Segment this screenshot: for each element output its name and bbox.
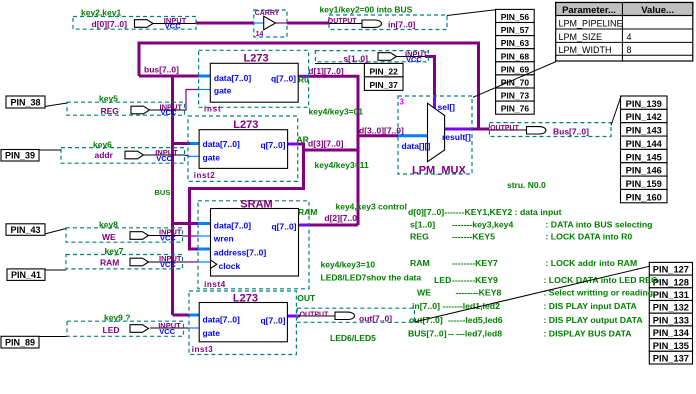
svg-text:L273: L273 bbox=[233, 119, 258, 131]
svg-text:d[0][7..0]-------KEY1,KEY2 : d: d[0][7..0]-------KEY1,KEY2 : data input bbox=[408, 207, 562, 217]
svg-text:------led5,led6: ------led5,led6 bbox=[448, 315, 503, 325]
svg-text:PIN_145: PIN_145 bbox=[626, 152, 662, 162]
svg-text:CARRY: CARRY bbox=[255, 10, 280, 17]
svg-text:key1/key2=00 into BUS: key1/key2=00 into BUS bbox=[320, 5, 413, 15]
svg-text:inst: inst bbox=[204, 105, 221, 114]
svg-text:REG: REG bbox=[101, 106, 120, 116]
svg-text:PIN_56: PIN_56 bbox=[501, 12, 530, 22]
svg-text:: DATA into BUS selecting: : DATA into BUS selecting bbox=[546, 220, 653, 230]
svg-text:: LOCK addr into RAM: : LOCK addr into RAM bbox=[546, 258, 638, 268]
svg-text:VCC: VCC bbox=[160, 260, 176, 269]
svg-text:R0: R0 bbox=[298, 75, 309, 85]
svg-text:PIN_131: PIN_131 bbox=[653, 290, 689, 300]
svg-text:d[2][7..0]: d[2][7..0] bbox=[324, 213, 360, 223]
svg-text:data[][]: data[][] bbox=[402, 141, 431, 151]
svg-text:LPM_WIDTH: LPM_WIDTH bbox=[559, 45, 612, 55]
svg-text:WE: WE bbox=[417, 288, 431, 298]
svg-text:key5: key5 bbox=[99, 94, 118, 104]
svg-text:d[0][7..0]: d[0][7..0] bbox=[92, 19, 128, 29]
svg-text:REG: REG bbox=[410, 232, 429, 242]
svg-text:AR: AR bbox=[297, 135, 309, 145]
svg-text:s[1..0]: s[1..0] bbox=[410, 220, 435, 230]
svg-text:: LOCK DATA into LED REG: : LOCK DATA into LED REG bbox=[544, 275, 658, 285]
svg-text:d[3][7..0]: d[3][7..0] bbox=[308, 138, 344, 148]
svg-text:BUS[7..0]: BUS[7..0] bbox=[408, 329, 447, 339]
svg-text:VCC: VCC bbox=[161, 108, 177, 117]
svg-text:-------key3,key4: -------key3,key4 bbox=[452, 220, 513, 230]
svg-text:Bus[7..0]: Bus[7..0] bbox=[553, 126, 589, 136]
svg-text:inst3: inst3 bbox=[192, 345, 214, 354]
svg-text:sel[]: sel[] bbox=[438, 102, 456, 112]
svg-text:key8: key8 bbox=[99, 219, 118, 229]
svg-text:PIN_160: PIN_160 bbox=[626, 192, 662, 202]
svg-text:out[7..0]: out[7..0] bbox=[359, 314, 392, 324]
svg-text:PIN_76: PIN_76 bbox=[501, 104, 530, 114]
svg-text:PIN_143: PIN_143 bbox=[626, 126, 662, 136]
svg-text:VCC: VCC bbox=[156, 154, 172, 163]
svg-text:VCC: VCC bbox=[159, 327, 175, 336]
svg-text:key7: key7 bbox=[105, 246, 124, 256]
svg-text:RAM: RAM bbox=[298, 207, 317, 217]
svg-text:PIN_132: PIN_132 bbox=[653, 303, 689, 313]
svg-text:PIN_22: PIN_22 bbox=[370, 66, 399, 76]
svg-text:Value...: Value... bbox=[641, 5, 674, 16]
svg-text:PIN_68: PIN_68 bbox=[501, 51, 530, 61]
svg-text:L273: L273 bbox=[233, 292, 258, 304]
svg-text:PIN_142: PIN_142 bbox=[626, 112, 662, 122]
svg-text:data[7..0]: data[7..0] bbox=[214, 73, 251, 83]
svg-text:PIN_39: PIN_39 bbox=[5, 151, 35, 161]
svg-text:LED8/LED7shov the data: LED8/LED7shov the data bbox=[321, 273, 422, 283]
svg-text:PIN_135: PIN_135 bbox=[653, 341, 689, 351]
svg-text:result[]: result[] bbox=[442, 132, 471, 142]
svg-text:PIN_146: PIN_146 bbox=[626, 166, 662, 176]
svg-text:data[7..0]: data[7..0] bbox=[203, 139, 240, 149]
svg-text:OUTPUT: OUTPUT bbox=[328, 18, 358, 25]
svg-text:LED: LED bbox=[434, 275, 451, 285]
svg-text:3: 3 bbox=[400, 98, 405, 107]
svg-text:key4/key3=01: key4/key3=01 bbox=[309, 107, 364, 117]
svg-text:4: 4 bbox=[627, 32, 632, 42]
svg-text:gate: gate bbox=[203, 153, 221, 163]
svg-text:OUTPUT: OUTPUT bbox=[490, 125, 519, 132]
svg-text:in[7..0]: in[7..0] bbox=[412, 301, 440, 311]
svg-text:: DIS PLAY output DATA: : DIS PLAY output DATA bbox=[544, 315, 644, 325]
svg-text:key4/key3=11: key4/key3=11 bbox=[315, 160, 369, 170]
svg-text:PIN_37: PIN_37 bbox=[370, 80, 399, 90]
svg-text:OUT: OUT bbox=[297, 293, 316, 303]
svg-text:PIN_127: PIN_127 bbox=[653, 265, 689, 275]
svg-text:bus[7..0]: bus[7..0] bbox=[144, 65, 179, 75]
svg-text:PIN_128: PIN_128 bbox=[653, 277, 689, 287]
svg-text:: LOCK DATA into R0: : LOCK DATA into R0 bbox=[546, 232, 633, 242]
svg-text:key4/key3=10: key4/key3=10 bbox=[321, 260, 376, 270]
svg-text:q[7..0]: q[7..0] bbox=[260, 140, 285, 150]
svg-text:8: 8 bbox=[627, 45, 632, 55]
svg-text:d[3..0][7..0]: d[3..0][7..0] bbox=[359, 125, 404, 135]
svg-text:key9 ?: key9 ? bbox=[104, 313, 130, 323]
svg-text:VCC: VCC bbox=[165, 22, 181, 31]
svg-text:OUTPUT: OUTPUT bbox=[300, 312, 330, 319]
svg-text:wren: wren bbox=[213, 234, 234, 244]
svg-text:PIN_144: PIN_144 bbox=[626, 139, 663, 149]
svg-text:-- ---led7,led8: -- ---led7,led8 bbox=[448, 329, 502, 339]
svg-text:PIN_137: PIN_137 bbox=[653, 354, 689, 364]
svg-text:inst4: inst4 bbox=[204, 280, 226, 289]
svg-text:data[7..0]: data[7..0] bbox=[203, 315, 240, 325]
svg-text:LED: LED bbox=[103, 325, 120, 335]
svg-text:PIN_89: PIN_89 bbox=[5, 338, 35, 348]
svg-text:s[1..0]: s[1..0] bbox=[343, 53, 368, 63]
svg-text:: DIS PLAY input DATA: : DIS PLAY input DATA bbox=[544, 301, 638, 311]
svg-text:RAM: RAM bbox=[410, 258, 430, 268]
svg-text:PIN_134: PIN_134 bbox=[653, 328, 690, 338]
svg-text:VCC: VCC bbox=[160, 234, 176, 243]
svg-text:gate: gate bbox=[203, 328, 221, 338]
svg-text:clock: clock bbox=[219, 261, 241, 271]
svg-text:Parameter...: Parameter... bbox=[562, 5, 616, 16]
svg-text:key6: key6 bbox=[93, 140, 112, 150]
svg-text:VCC: VCC bbox=[406, 55, 422, 64]
svg-text:LPM_SIZE: LPM_SIZE bbox=[559, 32, 603, 42]
svg-text:in[7..0]: in[7..0] bbox=[388, 19, 416, 29]
svg-text:14: 14 bbox=[256, 31, 264, 38]
svg-text:PIN_43: PIN_43 bbox=[10, 225, 40, 235]
svg-text:d[1][7..0]: d[1][7..0] bbox=[308, 66, 344, 76]
svg-text:key4,key3 control: key4,key3 control bbox=[336, 202, 407, 212]
svg-text:--------KEY9: --------KEY9 bbox=[452, 275, 498, 285]
svg-text:L273: L273 bbox=[244, 53, 269, 65]
svg-text:LPM_MUX: LPM_MUX bbox=[412, 164, 466, 176]
svg-text:LPM_PIPELINE: LPM_PIPELINE bbox=[559, 19, 623, 29]
svg-text:inst2: inst2 bbox=[194, 171, 216, 180]
svg-text:address[7..0]: address[7..0] bbox=[214, 248, 267, 258]
svg-text:-------led1,led2: -------led1,led2 bbox=[443, 301, 501, 311]
svg-text:q[7..0]: q[7..0] bbox=[271, 222, 296, 232]
svg-text:PIN_159: PIN_159 bbox=[626, 179, 662, 189]
svg-text:addr: addr bbox=[95, 150, 114, 160]
svg-text:stru. N0.0: stru. N0.0 bbox=[507, 180, 546, 190]
svg-text:gate: gate bbox=[214, 86, 232, 96]
svg-text:PIN_63: PIN_63 bbox=[501, 38, 530, 48]
svg-text:PIN_41: PIN_41 bbox=[11, 270, 41, 280]
svg-text:BUS: BUS bbox=[155, 188, 171, 197]
svg-text:PIN_139: PIN_139 bbox=[626, 99, 662, 109]
svg-text:data[7..0]: data[7..0] bbox=[214, 221, 251, 231]
svg-text:PIN_38: PIN_38 bbox=[10, 98, 40, 108]
svg-text:key2,key1: key2,key1 bbox=[81, 8, 121, 18]
svg-text:q[7..0]: q[7..0] bbox=[271, 74, 296, 84]
svg-text:SRAM: SRAM bbox=[240, 199, 272, 211]
svg-text:PIN_57: PIN_57 bbox=[501, 25, 530, 35]
svg-text:PIN_133: PIN_133 bbox=[653, 315, 689, 325]
svg-text:RAM: RAM bbox=[100, 258, 119, 268]
svg-text:WE: WE bbox=[102, 232, 116, 242]
svg-text:PIN_73: PIN_73 bbox=[501, 91, 530, 101]
svg-text:--------KEY8: --------KEY8 bbox=[456, 288, 502, 298]
svg-text:: DISPLAY BUS DATA: : DISPLAY BUS DATA bbox=[544, 329, 633, 339]
svg-text:--------KEY7: --------KEY7 bbox=[452, 258, 498, 268]
svg-text:: Select writting or reading: : Select writting or reading bbox=[544, 288, 654, 298]
svg-text:-------KEY5: -------KEY5 bbox=[452, 232, 495, 242]
svg-text:LED6/LED5: LED6/LED5 bbox=[330, 333, 376, 343]
svg-text:PIN_69: PIN_69 bbox=[501, 64, 530, 74]
svg-text:q[7..0]: q[7..0] bbox=[260, 315, 285, 325]
